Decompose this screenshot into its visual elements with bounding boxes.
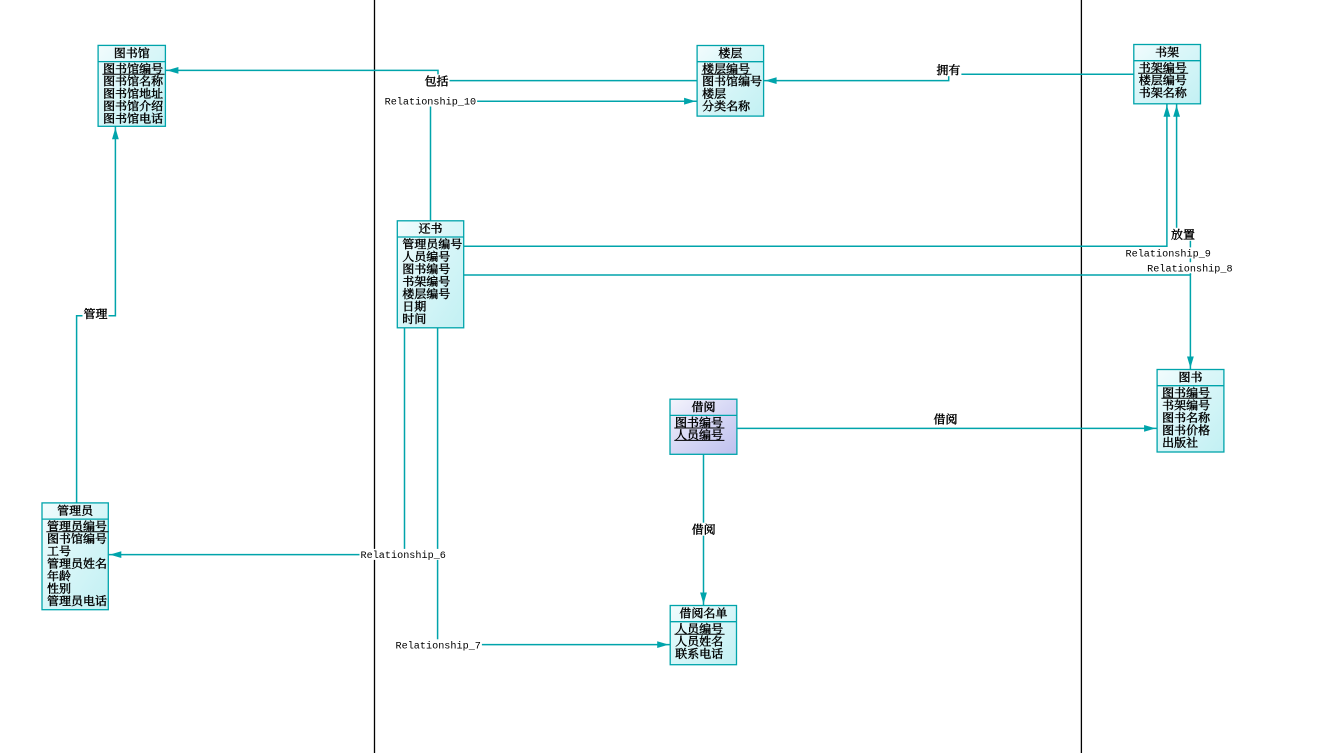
wire 包括 (楼层-图书馆) <box>165 70 697 80</box>
wire 拥有 (书架-楼层) <box>764 74 1134 80</box>
svg-text:Relationship_9: Relationship_9 <box>1126 249 1211 261</box>
wire Relationship_8 (还书-图书) <box>464 275 1191 370</box>
svg-text:Relationship_10: Relationship_10 <box>385 97 477 109</box>
wire Relationship_7 (还书-借阅名单) <box>438 328 671 645</box>
arrowhead 管理 at 图书馆 <box>112 128 119 140</box>
entity 管理员 <box>42 503 108 610</box>
entity 还书 <box>397 221 463 328</box>
wire Relationship_10 (还书-楼层) <box>431 101 698 221</box>
arrowhead 放置 at 书架 <box>1173 105 1180 117</box>
label 借阅 (borrow-list) <box>691 523 717 536</box>
entity 借阅名单 <box>670 606 736 665</box>
wire 放置 lower segment <box>1189 236 1191 275</box>
label 包括 <box>424 74 450 87</box>
arrowhead Relationship_8/放置 at 图书 <box>1187 357 1194 369</box>
wire 借阅 (借阅-图书) <box>737 427 1157 429</box>
arrowhead Relationship_7 at 借阅名单 <box>657 641 669 648</box>
arrowhead Relationship_9 at 书架 <box>1164 105 1171 117</box>
entity 借阅 <box>670 399 737 454</box>
label 拥有 <box>935 63 961 76</box>
wire 管理 (图书馆-管理员) <box>77 126 116 503</box>
arrowhead 包括 at 图书馆 <box>167 67 179 74</box>
wire Relationship_9 (还书-书架) <box>464 104 1167 247</box>
label Relationship_6 <box>360 549 447 560</box>
label 借阅 (borrow-book) <box>934 414 957 425</box>
svg-text:Relationship_8: Relationship_8 <box>1147 263 1232 275</box>
label Relationship_7 <box>395 639 482 650</box>
page boundary line left <box>374 0 376 753</box>
arrowhead 借阅 at 借阅名单 <box>700 593 707 605</box>
label Relationship_10 <box>384 96 478 107</box>
entity 图书 <box>1157 370 1224 453</box>
label 管理 <box>83 307 109 320</box>
svg-text:Relationship_6: Relationship_6 <box>361 550 446 562</box>
wire Relationship_6 (还书-管理员) <box>108 328 404 555</box>
label Relationship_8 <box>1146 262 1233 273</box>
label Relationship_9 <box>1125 247 1212 258</box>
arrowhead 拥有 at 楼层 <box>765 77 777 84</box>
arrowhead 借阅 at 图书 <box>1144 425 1156 432</box>
svg-text:Relationship_7: Relationship_7 <box>396 640 481 652</box>
entity 楼层 <box>697 46 764 117</box>
arrowhead Relationship_6 at 管理员 <box>110 551 122 558</box>
label 放置 <box>1170 228 1196 241</box>
wire 放置 (书架-图书) upper segment <box>1176 104 1178 232</box>
entity 图书馆 <box>98 45 165 126</box>
entity 书架 <box>1134 45 1201 104</box>
arrowhead Relationship_10 at 楼层 <box>684 98 696 105</box>
page boundary line right <box>1080 0 1082 753</box>
wire 借阅 (借阅-借阅名单) <box>703 454 705 605</box>
